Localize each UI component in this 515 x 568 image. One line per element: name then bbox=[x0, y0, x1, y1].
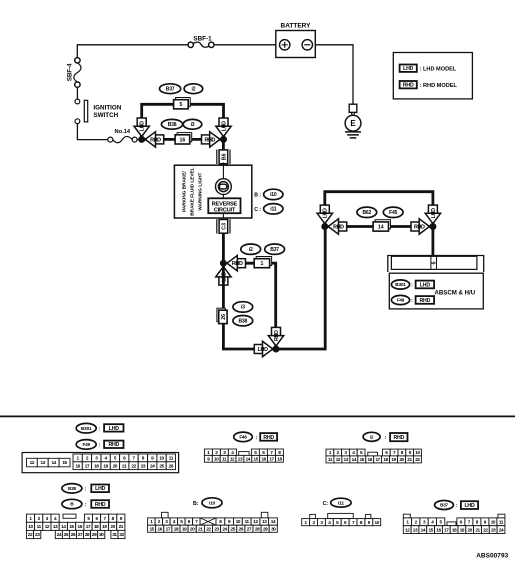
svg-text:RHD: RHD bbox=[95, 502, 106, 508]
svg-text:LHD: LHD bbox=[431, 208, 437, 218]
svg-text:E: E bbox=[350, 119, 356, 128]
connector pin C3 bbox=[217, 219, 230, 233]
svg-text:18: 18 bbox=[383, 457, 388, 462]
svg-text:17: 17 bbox=[166, 526, 171, 531]
svg-text:16: 16 bbox=[436, 527, 441, 532]
ABSCM connector strip bbox=[391, 256, 477, 269]
svg-text:LHD: LHD bbox=[420, 282, 431, 288]
label C i11 bbox=[254, 204, 283, 214]
connector pinout i10 bbox=[148, 498, 278, 533]
svg-text:LHD: LHD bbox=[323, 208, 329, 218]
svg-text:30: 30 bbox=[99, 532, 104, 537]
svg-text:19: 19 bbox=[182, 526, 187, 531]
wire C3 to node C bbox=[222, 234, 225, 264]
oval i3 mid bbox=[183, 119, 202, 129]
svg-text:RHD: RHD bbox=[108, 442, 119, 448]
svg-text:19: 19 bbox=[103, 463, 108, 468]
svg-text:B38: B38 bbox=[239, 319, 248, 325]
svg-text:17: 17 bbox=[375, 457, 380, 462]
wire LHD branch via pin 26 bbox=[223, 263, 276, 349]
node F junction bbox=[429, 223, 436, 230]
svg-text:12: 12 bbox=[253, 519, 258, 524]
wire B6 to module bbox=[222, 163, 224, 167]
svg-text:15: 15 bbox=[62, 460, 67, 465]
oval i2 node C bbox=[241, 244, 261, 254]
svg-text:: LHD MODEL: : LHD MODEL bbox=[420, 67, 457, 73]
svg-text:22: 22 bbox=[483, 527, 488, 532]
arrow LHD up at node C bbox=[216, 267, 231, 286]
svg-text:15: 15 bbox=[149, 526, 154, 531]
svg-text:i2: i2 bbox=[370, 435, 374, 441]
svg-text:B38: B38 bbox=[168, 122, 177, 128]
svg-text:i10: i10 bbox=[270, 192, 277, 198]
svg-text::: : bbox=[99, 443, 101, 449]
reverse circuit block bbox=[208, 198, 240, 213]
svg-text:B301: B301 bbox=[81, 426, 92, 431]
connector pin 16 bbox=[175, 133, 192, 144]
svg-text::: : bbox=[85, 502, 87, 508]
wire No.14 to node A bbox=[137, 139, 142, 141]
svg-text:B62: B62 bbox=[363, 210, 372, 216]
fuse SBF-4 bbox=[67, 58, 81, 88]
svg-text:RHD: RHD bbox=[333, 224, 344, 230]
fuse SBF-1 bbox=[188, 35, 214, 47]
svg-text:WARNING LIGHT: WARNING LIGHT bbox=[197, 172, 202, 210]
connector pin B6 bbox=[217, 150, 230, 164]
svg-text:1: 1 bbox=[260, 261, 263, 267]
svg-text:IGNITION: IGNITION bbox=[93, 104, 121, 111]
node B junction bbox=[220, 136, 227, 143]
svg-text:F45: F45 bbox=[389, 210, 397, 216]
svg-text:LHD: LHD bbox=[109, 426, 120, 432]
svg-text:16: 16 bbox=[158, 526, 163, 531]
svg-text:19: 19 bbox=[391, 457, 396, 462]
svg-text:25: 25 bbox=[159, 463, 164, 468]
arrow LHD down at node E bbox=[317, 205, 332, 224]
arrow RHD down at node D bbox=[268, 327, 283, 346]
connector pinout B38 B bbox=[26, 484, 125, 539]
svg-text::: : bbox=[411, 298, 413, 304]
svg-text:i11: i11 bbox=[338, 500, 344, 506]
svg-text:17: 17 bbox=[85, 463, 90, 468]
svg-text:20: 20 bbox=[110, 524, 115, 529]
wire SBF-1 to SBF-4 bbox=[77, 45, 188, 58]
svg-text:i3: i3 bbox=[191, 122, 195, 128]
svg-text::: : bbox=[456, 503, 458, 509]
svg-text:ABSCM & H/U: ABSCM & H/U bbox=[435, 290, 476, 297]
warning lamp bbox=[216, 179, 232, 195]
svg-text:B :: B : bbox=[254, 193, 261, 199]
svg-text:14: 14 bbox=[378, 224, 384, 230]
svg-text:LHD: LHD bbox=[403, 66, 414, 72]
svg-text:20: 20 bbox=[113, 463, 118, 468]
separator line bbox=[0, 415, 515, 417]
svg-text:i11: i11 bbox=[270, 207, 276, 213]
connector No.14 bbox=[108, 129, 137, 143]
svg-text:C:: C: bbox=[323, 501, 329, 507]
svg-text:13: 13 bbox=[344, 457, 349, 462]
svg-text:21: 21 bbox=[198, 526, 203, 531]
oval i3 low bbox=[233, 302, 253, 312]
svg-text:10: 10 bbox=[415, 450, 420, 455]
svg-text:B37: B37 bbox=[440, 503, 448, 508]
svg-text:C3: C3 bbox=[221, 223, 227, 230]
svg-text:27: 27 bbox=[78, 532, 83, 537]
svg-text:B38: B38 bbox=[68, 486, 76, 491]
wire module internal top bbox=[222, 165, 224, 179]
svg-text:13: 13 bbox=[238, 456, 243, 461]
svg-text:21: 21 bbox=[119, 524, 124, 529]
oval B62 bbox=[357, 207, 377, 217]
wire top loop right circuit bbox=[325, 192, 433, 227]
svg-text:21: 21 bbox=[475, 527, 480, 532]
wire node B to pin B6 bbox=[222, 139, 225, 150]
svg-text:i2: i2 bbox=[192, 87, 196, 93]
svg-text:RHD: RHD bbox=[232, 261, 243, 267]
svg-text::: : bbox=[411, 283, 413, 289]
ABSCM label box bbox=[389, 273, 483, 309]
svg-text:10: 10 bbox=[375, 520, 380, 525]
svg-text:12: 12 bbox=[230, 456, 235, 461]
svg-text:15: 15 bbox=[428, 527, 433, 532]
svg-text:16: 16 bbox=[261, 456, 266, 461]
wire SBF-4 to ignition switch bbox=[76, 87, 78, 99]
svg-text:B37: B37 bbox=[166, 87, 175, 93]
svg-text:12: 12 bbox=[336, 457, 341, 462]
svg-text::: : bbox=[256, 435, 258, 441]
svg-text:22: 22 bbox=[28, 532, 33, 537]
svg-text:12: 12 bbox=[45, 524, 50, 529]
oval F45 bbox=[383, 207, 403, 217]
oval B37 node C bbox=[265, 244, 285, 254]
svg-text:16: 16 bbox=[180, 137, 186, 143]
svg-text::: : bbox=[85, 486, 87, 492]
svg-text:24: 24 bbox=[57, 532, 62, 537]
svg-text:23: 23 bbox=[491, 527, 496, 532]
connector pinout B301 F49 bbox=[22, 423, 179, 472]
battery bbox=[276, 22, 316, 57]
arrow RHD right at node B bbox=[202, 132, 221, 147]
ground E bbox=[345, 112, 361, 137]
svg-text:22: 22 bbox=[206, 526, 211, 531]
svg-text:15: 15 bbox=[69, 524, 74, 529]
oval B38 low bbox=[233, 316, 253, 326]
svg-text:5: 5 bbox=[179, 102, 182, 108]
svg-text:14: 14 bbox=[421, 527, 426, 532]
svg-text:25: 25 bbox=[64, 532, 69, 537]
svg-text:26: 26 bbox=[169, 463, 174, 468]
svg-text:26: 26 bbox=[71, 532, 76, 537]
arrow LHD right at node D bbox=[254, 341, 272, 356]
svg-text:RHD: RHD bbox=[420, 298, 431, 304]
svg-text:23: 23 bbox=[35, 532, 40, 537]
svg-text:6: 6 bbox=[432, 261, 438, 264]
svg-text:ABS00793: ABS00793 bbox=[476, 553, 508, 560]
wire RHD branch via pin 1 bbox=[246, 263, 276, 349]
svg-text:22: 22 bbox=[415, 457, 420, 462]
arrow LHD down left bbox=[134, 118, 149, 137]
arrow RHD left at node A bbox=[145, 132, 164, 147]
wire RHD row via pin 16 bbox=[142, 138, 224, 141]
wire RHD row via pin 14 bbox=[325, 225, 433, 228]
svg-text:RHD: RHD bbox=[393, 435, 404, 441]
svg-text:24: 24 bbox=[499, 527, 504, 532]
warning light module box bbox=[174, 165, 251, 218]
node A junction bbox=[138, 136, 145, 143]
svg-text:i2: i2 bbox=[249, 247, 253, 253]
svg-text:31: 31 bbox=[112, 532, 117, 537]
node E junction bbox=[321, 223, 328, 230]
oval i2 top bbox=[184, 84, 203, 94]
svg-text:LHD: LHD bbox=[95, 486, 106, 492]
svg-text:14: 14 bbox=[61, 524, 66, 529]
svg-text:24: 24 bbox=[150, 463, 155, 468]
svg-text::: : bbox=[385, 435, 387, 441]
arrow LHD down right bbox=[216, 118, 231, 137]
svg-text:LHD: LHD bbox=[258, 347, 268, 353]
svg-text:18: 18 bbox=[277, 456, 282, 461]
svg-text:13: 13 bbox=[41, 460, 46, 465]
connector pin 14 bbox=[373, 220, 390, 231]
svg-text:F48: F48 bbox=[239, 435, 247, 440]
svg-text:23: 23 bbox=[214, 526, 219, 531]
svg-text:BATTERY: BATTERY bbox=[281, 22, 312, 29]
wire ignition switch to No.14 connector bbox=[77, 124, 108, 140]
wire battery positive to SBF-1 bbox=[214, 44, 276, 46]
svg-text:i3: i3 bbox=[241, 305, 245, 311]
svg-text:20: 20 bbox=[468, 527, 473, 532]
connector pinout F48 bbox=[204, 432, 283, 462]
node D junction bbox=[273, 346, 280, 353]
svg-text:RHD: RHD bbox=[274, 330, 280, 341]
wire reverse circuit to module edge bbox=[222, 213, 224, 218]
svg-text:RHD: RHD bbox=[150, 137, 161, 143]
label B i10 bbox=[254, 189, 283, 199]
svg-text:20: 20 bbox=[399, 457, 404, 462]
svg-text:26: 26 bbox=[221, 314, 227, 320]
ground connector bbox=[349, 104, 357, 112]
arrow RHD left at node C bbox=[227, 256, 246, 271]
svg-text:LHD: LHD bbox=[221, 121, 227, 131]
ignition switch bbox=[75, 99, 122, 124]
svg-text:REVERSE: REVERSE bbox=[212, 201, 238, 207]
svg-text::: : bbox=[99, 426, 101, 432]
node C junction bbox=[220, 260, 227, 267]
svg-text:10: 10 bbox=[214, 456, 219, 461]
connector pinout i11 bbox=[302, 498, 381, 525]
oval B37 top bbox=[160, 84, 181, 94]
svg-text:: RHD MODEL: : RHD MODEL bbox=[420, 83, 458, 89]
wire lamp to reverse circuit bbox=[222, 194, 224, 199]
arrow LHD down at node F bbox=[425, 205, 440, 224]
svg-text:30: 30 bbox=[271, 526, 276, 531]
svg-text:RHD: RHD bbox=[263, 435, 274, 441]
connector pin 1 bbox=[254, 257, 271, 268]
wire battery negative to ground bbox=[315, 45, 353, 104]
legend box bbox=[393, 53, 472, 99]
svg-text:RHD: RHD bbox=[403, 83, 414, 89]
svg-text:10: 10 bbox=[236, 519, 241, 524]
svg-text:SWITCH: SWITCH bbox=[93, 112, 118, 119]
wire node D to node E bbox=[276, 227, 325, 350]
svg-text:16: 16 bbox=[75, 463, 80, 468]
svg-text:18: 18 bbox=[94, 463, 99, 468]
svg-text:B301: B301 bbox=[395, 282, 406, 287]
svg-text:SBF-1: SBF-1 bbox=[193, 35, 212, 42]
ABSCM outer frame bbox=[388, 256, 484, 273]
oval B38 mid bbox=[161, 119, 182, 129]
svg-text:10: 10 bbox=[491, 519, 496, 524]
svg-text:i10: i10 bbox=[209, 501, 216, 507]
svg-text:15: 15 bbox=[254, 456, 259, 461]
svg-text:14: 14 bbox=[51, 460, 56, 465]
svg-text:F49: F49 bbox=[397, 298, 405, 303]
svg-text:B37: B37 bbox=[270, 247, 279, 253]
svg-text:RHD: RHD bbox=[204, 137, 215, 143]
svg-text:F49: F49 bbox=[83, 442, 91, 447]
svg-text:BRAKE FLUID LEVEL: BRAKE FLUID LEVEL bbox=[189, 167, 194, 215]
svg-text:14: 14 bbox=[352, 457, 357, 462]
wire node F to ABSCM bbox=[431, 227, 434, 257]
svg-text:LHD: LHD bbox=[140, 121, 146, 131]
svg-text:No.14: No.14 bbox=[115, 129, 131, 135]
svg-text:22: 22 bbox=[131, 463, 136, 468]
svg-text:15: 15 bbox=[360, 457, 365, 462]
svg-text:LHD: LHD bbox=[464, 503, 475, 509]
connector pin 26 bbox=[217, 308, 227, 323]
svg-text:18: 18 bbox=[94, 524, 99, 529]
svg-text:B:: B: bbox=[193, 501, 199, 507]
svg-text:17: 17 bbox=[444, 527, 449, 532]
svg-text:16: 16 bbox=[78, 524, 83, 529]
svg-text:18: 18 bbox=[174, 526, 179, 531]
svg-text:13: 13 bbox=[262, 519, 267, 524]
svg-text:21: 21 bbox=[122, 463, 127, 468]
connector pinout i2 bbox=[326, 432, 421, 463]
svg-text:SBF-4: SBF-4 bbox=[67, 63, 74, 81]
arrow RHD left at node E bbox=[328, 219, 347, 234]
svg-text:13: 13 bbox=[53, 524, 58, 529]
arrow RHD right at node F bbox=[411, 219, 430, 234]
svg-text:10: 10 bbox=[159, 456, 164, 461]
svg-text:PARKING BRAKE/: PARKING BRAKE/ bbox=[181, 171, 186, 212]
svg-text:20: 20 bbox=[190, 526, 195, 531]
svg-text:B6: B6 bbox=[221, 153, 227, 160]
svg-text:C :: C : bbox=[254, 207, 261, 213]
svg-text:CIRCUIT: CIRCUIT bbox=[214, 208, 236, 214]
svg-text:17: 17 bbox=[269, 456, 274, 461]
connector pinout B37 bbox=[403, 501, 505, 534]
svg-text:RHD: RHD bbox=[414, 224, 425, 230]
connector pin 5 bbox=[174, 98, 191, 109]
wire LHD top loop via pin 5 bbox=[142, 104, 224, 139]
svg-text:23: 23 bbox=[141, 463, 146, 468]
